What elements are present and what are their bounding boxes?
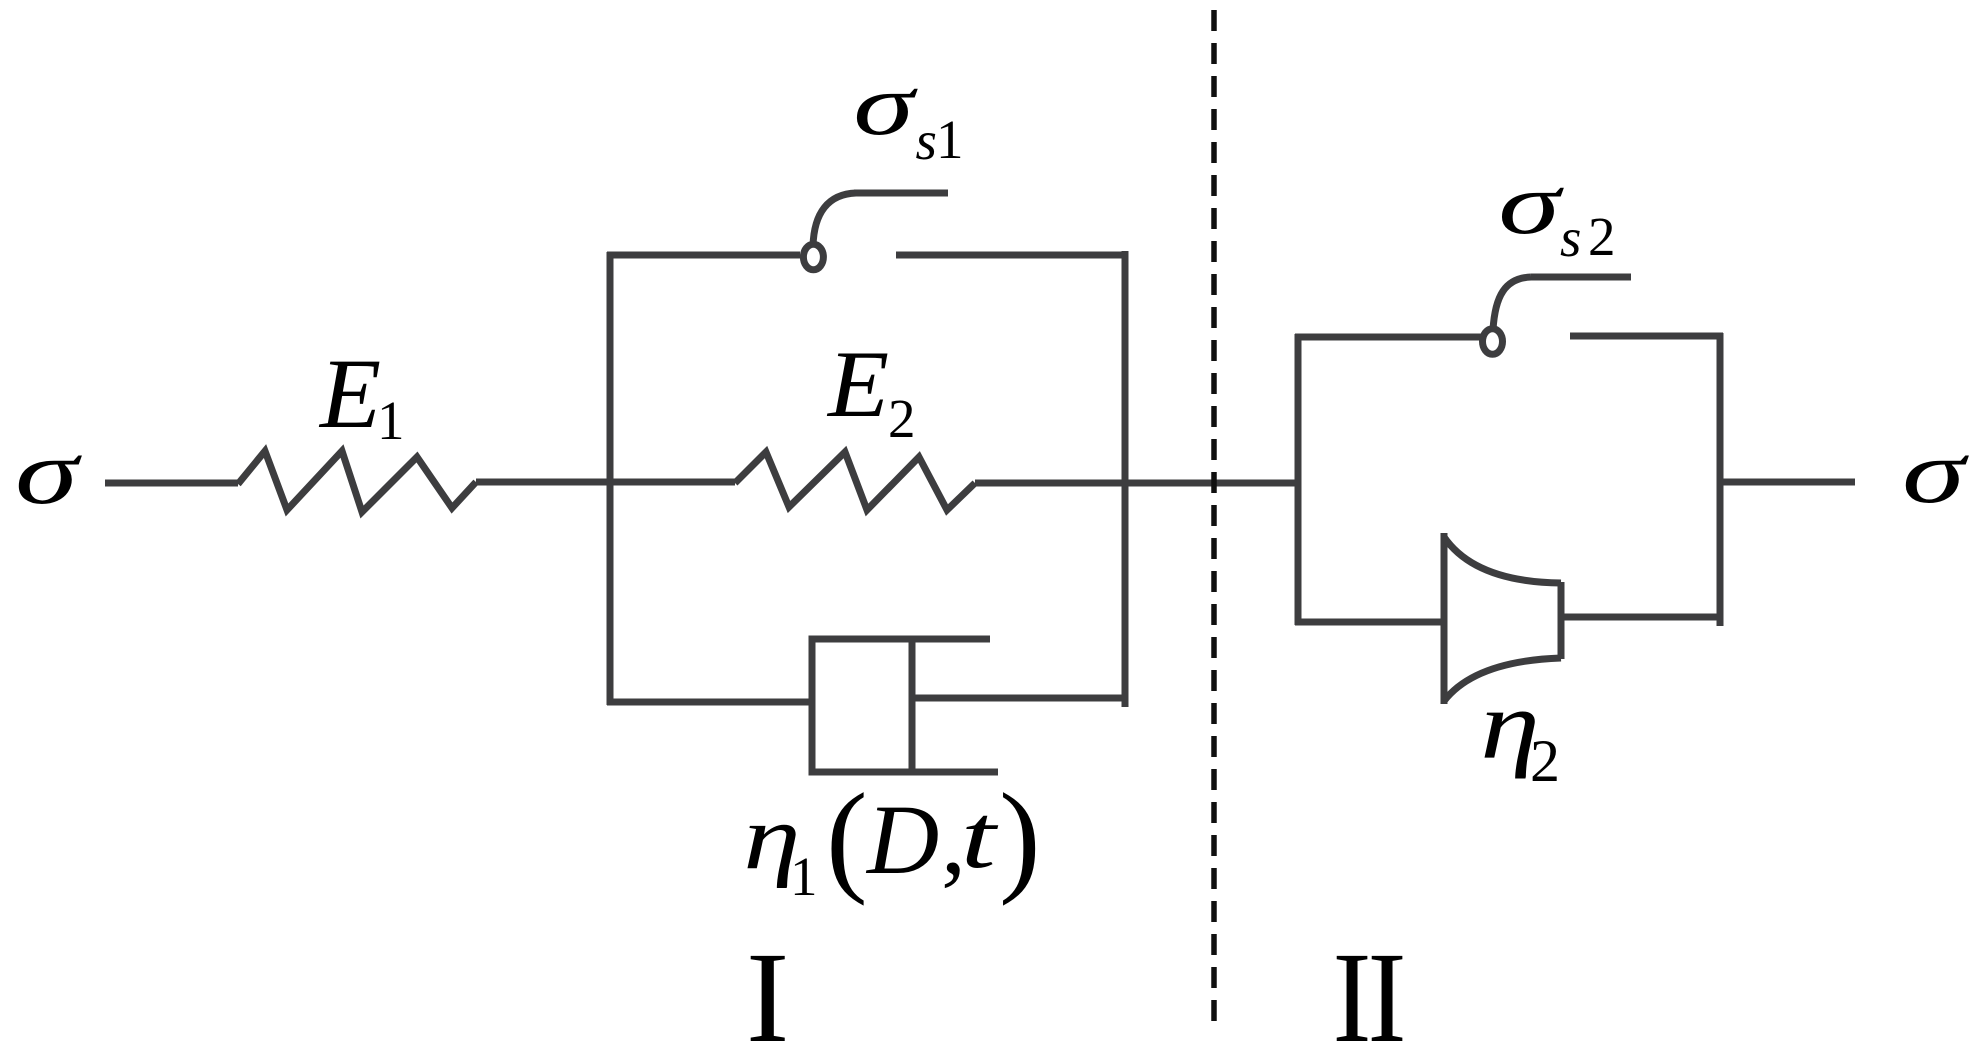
wire: right lead to sigma [1720, 479, 1855, 486]
wire: box II top left segment [1295, 334, 1482, 341]
wire: E2 branch right [975, 480, 1128, 487]
wire: box I left wall [607, 252, 614, 705]
svg-text:(: ( [826, 769, 868, 907]
svg-text:1: 1 [936, 109, 964, 170]
switch S1 blade horizontal [854, 190, 948, 197]
wire: between box I and box II [1122, 480, 1301, 487]
svg-text:1: 1 [377, 390, 405, 451]
svg-text:2: 2 [1588, 206, 1616, 267]
damper eta2 horn top curve [1444, 537, 1561, 583]
svg-text:σ: σ [15, 422, 83, 524]
svg-text:t: t [961, 786, 999, 887]
damper eta2 horn mouth line [1441, 533, 1448, 704]
wire: box II left wall [1295, 334, 1302, 625]
svg-text:I: I [1333, 925, 1372, 1059]
wire: box II top right segment [1570, 333, 1723, 340]
wire: box II bottom right segment [1561, 614, 1723, 621]
switch S1 pivot circle [803, 244, 823, 270]
wire: E2 branch left [610, 479, 735, 486]
svg-text:E: E [318, 338, 381, 449]
wire: box I top right segment [896, 252, 1128, 259]
wire: box I top left segment [607, 252, 800, 259]
resistor (spring) E1 [238, 451, 476, 512]
resistor (spring) E2 [735, 452, 975, 510]
svg-text:D: D [865, 784, 939, 895]
dashpot eta1 cylinder [812, 639, 998, 772]
svg-text:1: 1 [790, 846, 818, 907]
wire: left lead from sigma [105, 480, 238, 487]
switch S2 blade horizontal [1531, 274, 1631, 281]
svg-text:σ: σ [853, 56, 918, 153]
wire: box I bottom left segment [607, 699, 815, 706]
wire: box II right wall [1717, 333, 1724, 626]
switch S2 blade curve [1493, 277, 1531, 330]
wire: box II bottom left segment [1295, 619, 1446, 626]
svg-text:σ: σ [1902, 422, 1969, 522]
dashpot eta1 rod [912, 695, 1128, 702]
svg-text:s: s [1560, 207, 1581, 268]
svg-text:I: I [746, 926, 789, 1059]
svg-text:E: E [826, 332, 889, 437]
switch S1 blade curve [813, 193, 856, 246]
wire: E1 to box I left wall [476, 479, 613, 486]
switch S2 pivot circle [1483, 329, 1503, 355]
dashpot eta1 piston [909, 636, 916, 775]
damper eta2 horn throat line [1558, 582, 1565, 659]
damper eta2 horn bottom curve [1444, 658, 1561, 701]
svg-text:): ) [999, 769, 1041, 907]
svg-text:σ: σ [1498, 156, 1564, 253]
svg-text:I: I [1368, 925, 1407, 1059]
wire: box I right wall [1122, 251, 1129, 707]
svg-text:2: 2 [1530, 728, 1560, 794]
svg-text:s: s [916, 110, 937, 171]
divider dashed line between region I and II [1211, 10, 1217, 1022]
svg-text:2: 2 [888, 388, 916, 449]
